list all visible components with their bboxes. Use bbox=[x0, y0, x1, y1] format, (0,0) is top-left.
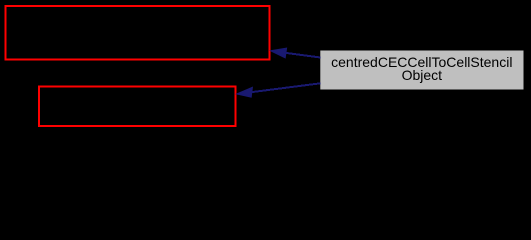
svg-text:Object: Object bbox=[402, 67, 443, 83]
wire: edge 2 shaft (grey node to box 2) bbox=[252, 83, 321, 92]
wire: edge 1 shaft (grey node to box 1) bbox=[286, 53, 321, 58]
arrowhead of edge 2 at box 2 bbox=[237, 87, 253, 97]
node box 1 (red, truncated base class, top-left) bbox=[6, 6, 270, 60]
arrowhead of edge 1 at box 1 bbox=[271, 48, 287, 58]
node U: centredCECCellToCellStencilObject (current node, grey fill) bbox=[320, 50, 524, 90]
node box 2 (red, truncated base class, bottom-left) bbox=[39, 87, 236, 127]
